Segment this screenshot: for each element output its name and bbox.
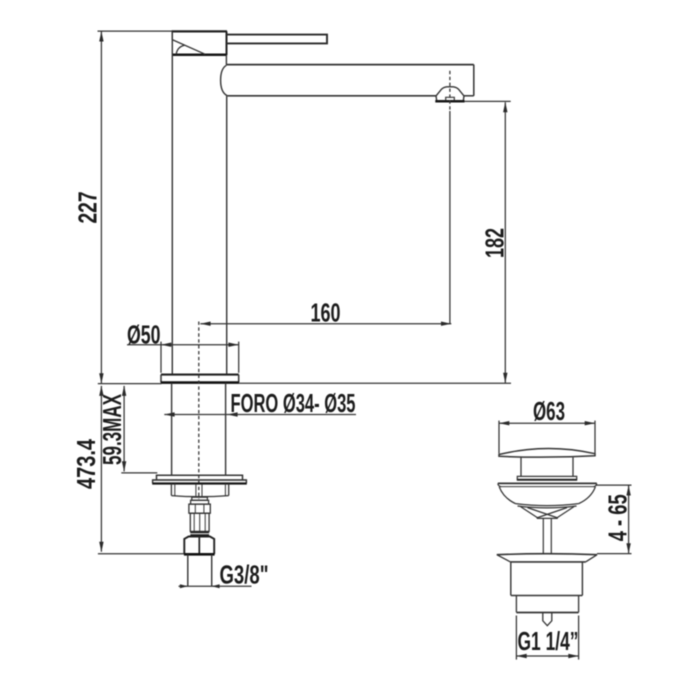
drain threaded band G1 1/4 (516, 596, 578, 613)
faucet handle block (172, 31, 227, 55)
dimension 4-65 (extension lines, dim line, arrows) (596, 485, 632, 553)
extension line: top of faucet (227 upper reference) (98, 30, 174, 32)
threaded shank below deck (172, 383, 226, 475)
drain connecting rod (543, 519, 551, 555)
dimension Ø63 (dim line, arrows, extension lines) (499, 421, 595, 454)
drain cap dome (499, 448, 595, 457)
under-flange cup (171, 484, 228, 497)
svg-text:227: 227 (73, 192, 103, 224)
drain drip spike (543, 613, 552, 626)
svg-text:4 - 65: 4 - 65 (603, 494, 633, 541)
base plate (Ø50) (161, 375, 240, 383)
svg-text:160: 160 (311, 297, 341, 327)
svg-text:Ø63: Ø63 (533, 396, 565, 426)
extension line: nut bottom (473.4 lower reference) (98, 553, 184, 555)
svg-text:Ø50: Ø50 (127, 320, 161, 350)
supply tube (188, 555, 212, 587)
drain lower flange plate (497, 554, 597, 562)
dimension 182 (vertical line + arrows + top extension) (465, 101, 511, 383)
drain body cylinder (511, 562, 583, 596)
dimension 227 (vertical line + arrows) (99, 31, 103, 383)
dimension G3/8 (line under tube + inward arrows) (179, 584, 252, 588)
hex nut G3/8 (184, 537, 215, 555)
aerator at spout tip (435, 87, 464, 102)
svg-text:G3/8": G3/8" (220, 560, 269, 590)
drain strainer cross (521, 507, 575, 519)
extension line: flange top (59.3MAX lower reference) (121, 472, 157, 474)
leader FORO Ø34-Ø35 (line + two left arrows) (164, 412, 356, 416)
svg-text:59.3MAX: 59.3MAX (97, 394, 127, 465)
hose coupling bands (189, 497, 210, 513)
spout (221, 65, 474, 96)
deck surface extension line (left) (98, 383, 162, 385)
dimension G1 1/4 (extension lines, dim line, arrows) (516, 616, 578, 660)
dimension 59.3MAX (vertical line + arrows) (122, 386, 126, 472)
tightening stud (196, 484, 202, 497)
spout tip centerline (dashed then solid to 160 dim) (449, 71, 451, 111)
faucet lever rod (227, 35, 328, 44)
dimension 473.4 (vertical line + arrows) (99, 386, 103, 552)
svg-text:182: 182 (480, 228, 510, 258)
faucet centerline (dashed) (198, 322, 200, 500)
deck surface extension line (right, to 182 dim) (239, 382, 511, 384)
svg-text:G1 1/4”: G1 1/4” (518, 626, 579, 656)
drain cap neck (521, 457, 573, 476)
dimension 160 (horizontal dim line + arrows) (200, 322, 451, 326)
svg-text:FORO Ø34- Ø35: FORO Ø34- Ø35 (231, 388, 356, 418)
mounting flange plates (152, 475, 247, 483)
faucet body column (172, 31, 226, 374)
drain collar (517, 476, 577, 479)
braided nipple (190, 513, 209, 535)
drain funnel flange (498, 483, 597, 508)
dimension Ø50 (dim line, arrows, extension lines) (127, 342, 239, 373)
